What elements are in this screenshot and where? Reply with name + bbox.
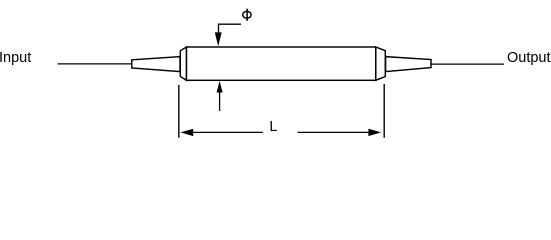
svg-text:L: L [269,119,277,135]
phi leader line [219,24,242,33]
left boot cone [132,57,180,72]
L dimension right arrowhead [368,129,381,136]
diameter up arrowhead [217,81,223,93]
right boot cone [386,57,431,72]
phi down arrowhead [215,32,222,46]
svg-text:Output: Output [507,50,551,66]
phi symbol [243,9,251,21]
output fiber wire [432,63,505,65]
right transition trapezoid [376,47,386,80]
extension line right [383,84,385,138]
L dimension left arrowhead [180,129,193,136]
extension line left [178,85,180,138]
L dimension line left segment [193,131,263,133]
device body cylinder [187,47,376,80]
diameter up arrow stem [219,92,221,111]
svg-text:Input: Input [0,50,31,66]
left ferrule face / transition trapezoid [180,47,186,80]
L dimension line right segment [298,131,369,133]
input fiber wire [58,63,132,65]
